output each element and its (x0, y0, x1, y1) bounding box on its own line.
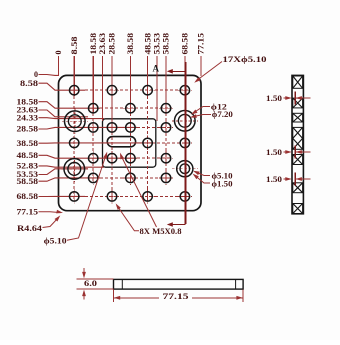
svg-text:ϕ5.10: ϕ5.10 (44, 236, 67, 245)
hole 5.10 at (48.58,68.58) (140, 189, 154, 203)
bottom view outline (114, 279, 244, 289)
top ordinate dimension labels (54, 33, 205, 55)
svg-text:ϕ1.50: ϕ1.50 (212, 179, 233, 188)
left-top counterbore hole (62, 108, 88, 134)
svg-text:77.15: 77.15 (17, 208, 39, 217)
svg-text:8.58: 8.58 (20, 79, 38, 88)
hole 5.10 at (28.58,68.58) (105, 189, 119, 203)
hole 5.10 at (58.58,28.58) (159, 120, 173, 134)
svg-text:28.58: 28.58 (108, 33, 117, 55)
dimension 77.15 bottom (114, 290, 244, 303)
label phi5.10 slot (44, 152, 108, 246)
left ordinate dimension labels (17, 70, 39, 216)
right-top counterbore hole phi12/phi7.20 (172, 108, 198, 134)
label phi12 phi7.20 (190, 103, 233, 119)
svg-text:23.63: 23.63 (98, 33, 107, 55)
svg-text:ϕ7.20: ϕ7.20 (212, 110, 233, 119)
svg-text:1.50: 1.50 (266, 175, 282, 184)
hole 5.10 at (28.58,48.58) (105, 151, 119, 165)
center slot (107, 137, 135, 147)
plate outline (59, 75, 202, 210)
hole 5.10 at (18.58,28.58) (86, 120, 100, 134)
left ordinate leader lines (39, 75, 153, 197)
hole 5.10 at (48.58,38.58) (140, 136, 154, 150)
svg-text:6.0: 6.0 (84, 278, 97, 288)
dimension 1.50 #3 (266, 173, 311, 186)
label 8X M5X0.8 (116, 203, 182, 235)
inner recess rectangle (103, 119, 156, 167)
dashed column centerlines (74, 96, 166, 201)
hole 5.10 at (18.58,18.58) (86, 101, 100, 115)
svg-text:18.58: 18.58 (89, 33, 98, 55)
dimension 1.50 #2 (266, 146, 311, 159)
hole 5.10 at (38.58,18.58) (123, 101, 137, 115)
left-bottom counterbore hole (61, 156, 87, 182)
svg-text:68.58: 68.58 (181, 33, 190, 55)
dimension 77.15 left leader (39, 210, 64, 214)
svg-text:48.58: 48.58 (143, 33, 152, 55)
hole 5.10 at (38.58,48.58) (123, 151, 137, 165)
hole 5.10 at (48.58,8.58) (140, 83, 154, 97)
svg-text:8X M5X0.8: 8X M5X0.8 (140, 227, 182, 236)
hole 5.10 at (18.58,48.58) (86, 151, 100, 165)
svg-text:0: 0 (34, 70, 38, 79)
dimension 6.0 (77, 268, 114, 300)
svg-text:38.58: 38.58 (126, 33, 135, 55)
section cutting line (184, 62, 186, 224)
svg-text:24.33: 24.33 (17, 113, 39, 122)
vertical ordinate extension lines (59, 56, 201, 132)
hole 5.10 at (58.58,48.58) (159, 151, 173, 165)
hole 5.10 at (28.58,28.58) (105, 120, 119, 134)
hole 5.10 at (8.58,38.58) (67, 136, 81, 150)
svg-text:38.58: 38.58 (17, 139, 39, 148)
svg-text:68.58: 68.58 (17, 192, 39, 201)
section marker A (153, 63, 160, 73)
svg-text:A: A (153, 63, 160, 73)
svg-text:28.58: 28.58 (17, 125, 39, 134)
hole 5.10 at (68.58,38.58) (178, 136, 192, 150)
section arrow bottom (167, 222, 186, 227)
hole 5.10 at (58.58,18.58) (159, 101, 173, 115)
hole 5.10 at (18.58,58.58) (86, 171, 100, 185)
dimension 1.50 #1 (266, 92, 311, 105)
slot leader 2 (120, 153, 157, 227)
svg-text:53.53: 53.53 (153, 33, 162, 55)
svg-text:17Xϕ5.10: 17Xϕ5.10 (223, 55, 267, 64)
side section view with hatching (292, 75, 303, 213)
label phi5.10 phi1.50 (193, 171, 233, 189)
svg-text:77.15: 77.15 (163, 291, 189, 301)
right-bottom hole phi5.10/phi1.50 (172, 156, 198, 182)
svg-text:48.58: 48.58 (17, 151, 39, 160)
svg-text:0: 0 (54, 51, 63, 55)
svg-text:58.58: 58.58 (17, 177, 39, 186)
hole 5.10 at (38.58,28.58) (123, 120, 137, 134)
hole 5.10 at (28.58,8.58) (105, 83, 119, 97)
section arrow top (167, 69, 186, 74)
svg-text:77.15: 77.15 (197, 33, 206, 55)
svg-text:1.50: 1.50 (266, 94, 282, 103)
hole 5.10 at (38.58,58.58) (123, 171, 137, 185)
label 17X phi5.10 (194, 55, 266, 83)
dashed row centerlines (85, 90, 190, 196)
hole 5.10 at (58.58,58.58) (159, 171, 173, 185)
label R4.64 (17, 215, 60, 233)
hole 5.10 at (68.58,8.58) (178, 83, 192, 97)
svg-text:58.58: 58.58 (162, 33, 171, 55)
hole 5.10 at (8.58,68.58) (67, 189, 81, 203)
svg-text:R4.64: R4.64 (17, 224, 42, 233)
svg-text:8.58: 8.58 (70, 37, 79, 55)
svg-text:1.50: 1.50 (266, 148, 282, 157)
hole 5.10 at (8.58,8.58) (67, 83, 81, 97)
hole 5.10 at (68.58,68.58) (178, 189, 192, 203)
